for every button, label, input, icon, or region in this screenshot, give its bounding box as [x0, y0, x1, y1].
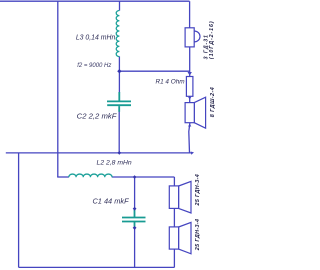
svg-text:8 ГДШ-2-4: 8 ГДШ-2-4 [210, 87, 216, 117]
wire rail A [57, 1, 59, 177]
wire L3 rail top stub [119, 1, 121, 10]
speaker woofer1 [169, 181, 191, 213]
wire top bus [0, 0, 190, 2]
wire woofer2 to bottom bus [173, 249, 175, 267]
wire between woofers [173, 208, 175, 227]
speaker woofer2 [169, 222, 191, 253]
wire L3 to link junction [118, 56, 120, 71]
svg-text:R1 4 Ohm: R1 4 Ohm [155, 78, 185, 85]
wire link line [119, 70, 189, 72]
wire tweeter drop [189, 1, 191, 28]
wire bottom bus [19, 266, 175, 268]
wire woofer drop upper [173, 177, 175, 186]
svg-text:(10ГД-2-16): (10ГД-2-16) [209, 20, 215, 59]
junction dot at C2 return node [117, 151, 121, 155]
capacitor C1 [122, 210, 146, 227]
junction dot at L3/C2 link node [117, 69, 121, 73]
resistor R1 [186, 77, 193, 97]
wire C1 bottom lead [134, 229, 136, 268]
svg-text:C1 44 mkF: C1 44 mkF [92, 197, 129, 206]
inductor L3 [116, 11, 119, 57]
capacitor C2 [107, 92, 131, 112]
svg-text:25 ГДН-3-4: 25 ГДН-3-4 [195, 174, 201, 207]
wire C1 top lead [134, 177, 136, 209]
wire mid speaker return [189, 123, 190, 153]
svg-text:f2 = 9000 Hz: f2 = 9000 Hz [77, 63, 111, 69]
svg-text:C2 2,2 mkF: C2 2,2 mkF [77, 112, 118, 121]
speaker tweeter [185, 28, 200, 47]
wire R1 to mid speaker [189, 96, 191, 102]
junction arrow return bus end [191, 152, 194, 155]
svg-text:L3 0,14 mHn: L3 0,14 mHn [76, 34, 116, 41]
junction arrow R1 bottom [188, 97, 191, 100]
junction dot at C1 tap node [133, 175, 137, 179]
svg-text:25 ГДН-3-4: 25 ГДН-3-4 [195, 219, 201, 252]
speaker mid [185, 97, 206, 128]
wire left drop [18, 153, 20, 268]
inductor L2 [69, 174, 112, 177]
wire return bus [6, 152, 192, 154]
junction arrow mid speaker bottom [188, 124, 191, 127]
wire tweeter to R1 [189, 47, 191, 77]
wire link junction to C2 [118, 71, 120, 92]
junction arrow C1 top [133, 207, 137, 211]
wire L2 line right segment [112, 176, 175, 178]
wire C2 to return bus [118, 112, 120, 153]
wire L2 line left segment [57, 176, 69, 178]
junction arrow at R1 top node [188, 72, 192, 76]
svg-text:L2 2,8 mHn: L2 2,8 mHn [97, 159, 132, 166]
junction arrow C1 bottom [133, 226, 137, 230]
